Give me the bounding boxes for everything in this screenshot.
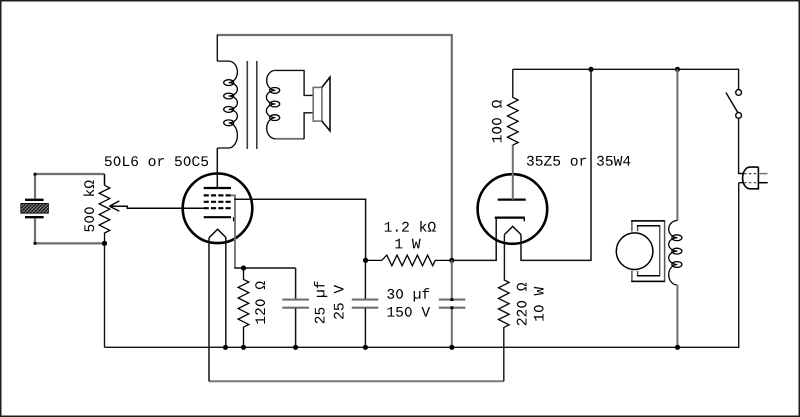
wire cathode node horizontal <box>234 267 295 269</box>
label 1 W <box>395 239 420 249</box>
wire secondary top to speaker <box>275 70 313 95</box>
tube 50L6 plate <box>204 187 231 189</box>
crystal pickup top plate <box>25 199 44 201</box>
tube 50L6 cathode <box>204 216 231 218</box>
wire grid1 lead (gray) <box>231 195 235 267</box>
label 35Z5 or 35W4 <box>527 156 631 166</box>
wire B+ top rail (gray) <box>217 35 451 260</box>
capacitor 25uf <box>295 268 297 299</box>
node crystal corners <box>34 173 37 176</box>
label 1.2 kohm <box>385 221 436 232</box>
wire 50L6 right heater leg <box>225 238 227 348</box>
crystal pickup element <box>21 203 49 213</box>
wire rectifier cathode to node <box>452 219 496 261</box>
wire 35Z5 plate lead (gray) <box>512 145 514 200</box>
speaker cone <box>322 77 330 131</box>
tube 50L6 heater <box>209 229 226 238</box>
resistor 100 ohm <box>508 69 519 145</box>
wire pot junction down <box>104 243 106 347</box>
wire screen grid to filter node <box>234 199 365 260</box>
transformer T1 core <box>246 61 248 149</box>
speaker frame <box>313 87 322 121</box>
wire heater AC top rail <box>513 69 739 89</box>
wire 50L6 left heater leg <box>208 238 210 382</box>
node filter input junction <box>363 258 368 263</box>
tube 35Z5 heater <box>504 226 521 234</box>
transformer T1 primary winding <box>217 61 237 148</box>
wire transformer top lead <box>216 35 218 62</box>
wire switch to plug <box>739 118 743 173</box>
heater tap coil <box>669 221 678 286</box>
resistor 120 ohm <box>238 268 249 347</box>
label 220 ohm <box>517 283 527 325</box>
switch S1 <box>736 90 742 96</box>
heater tap coil lead bottom (gray) <box>676 285 678 347</box>
transformer T1 secondary winding <box>266 70 275 138</box>
node 120 ohm top <box>241 265 246 270</box>
heater tap coil lead top (gray) <box>676 69 678 220</box>
potentiometer wiper arrow <box>110 206 204 208</box>
label 500 kohm <box>83 180 94 231</box>
potentiometer 500k top lead <box>104 174 106 185</box>
node pot bottom junction <box>102 241 107 246</box>
capacitor 30uf output (gray leads) <box>451 260 453 299</box>
wire secondary bottom to speaker <box>304 113 313 139</box>
wire plate lead 50L6 <box>216 148 218 188</box>
label 100 ohm <box>492 100 502 142</box>
label 150 V <box>388 307 431 317</box>
tube 50L6 envelope U1 <box>183 174 253 244</box>
pilot lamp bracket outer <box>632 221 665 282</box>
potentiometer 500k zigzag <box>99 185 110 243</box>
label 25 uf <box>314 281 327 323</box>
label 25 V <box>334 285 344 319</box>
tube 35Z5 plate <box>498 199 526 201</box>
AC plug P1 prongs <box>758 173 767 175</box>
pilot lamp bracket inner <box>638 226 660 276</box>
capacitor 30uf input <box>364 260 366 299</box>
label 50L6 or 50C5 <box>105 156 208 166</box>
tube 35Z5 envelope U2 <box>478 174 548 244</box>
wire crystal to pot bottom (gray) <box>35 218 104 243</box>
resistor 220 ohm with left heater leg <box>499 235 510 382</box>
tube 50L6 grid rows <box>204 195 231 208</box>
wire heater return lower rail (gray) <box>209 380 504 382</box>
label 120 ohm <box>255 281 265 323</box>
wire 35Z5 right heater leg <box>521 69 591 260</box>
pilot lamp bulb <box>616 233 653 270</box>
label 30 uf <box>387 288 429 301</box>
wire crystal to pot top (gray) <box>35 174 105 199</box>
AC plug P1 body <box>743 167 759 189</box>
resistor 1.2k filter <box>366 255 452 266</box>
tube 35Z5 cathode <box>495 217 525 219</box>
wire secondary bottom (gray) <box>275 138 304 140</box>
wire bottom rail <box>105 183 739 348</box>
node rectifier output junction <box>449 258 454 263</box>
crystal pickup bottom plate <box>25 216 44 218</box>
label 10 W <box>534 287 544 321</box>
